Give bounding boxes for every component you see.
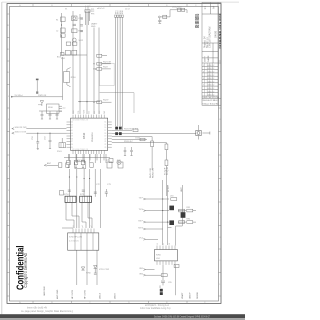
svg-text:6: 6 — [8, 166, 9, 168]
svg-text:4460 62: 4460 62 — [208, 68, 215, 70]
svg-text:VAPC: VAPC — [180, 187, 183, 192]
svg-text:ANT GND: ANT GND — [56, 289, 59, 299]
svg-text:L801 R802: L801 R802 — [172, 7, 183, 9]
svg-text:F501: F501 — [61, 58, 65, 60]
svg-text:A4: A4 — [212, 5, 216, 9]
svg-text:3: 3 — [219, 237, 220, 239]
svg-text:R1: R1 — [56, 20, 58, 22]
svg-text:8: 8 — [219, 119, 220, 121]
svg-text:15: 15 — [105, 124, 107, 126]
svg-text:18: 18 — [105, 133, 107, 135]
svg-text:RX P: RX P — [138, 220, 143, 222]
svg-text:39: 39 — [71, 136, 73, 138]
svg-text:R523 ›: R523 › — [103, 100, 109, 102]
svg-text:COL: COL — [78, 110, 80, 113]
svg-text:DZKBAUER 102 E 6001: DZKBAUER 102 E 6001 — [218, 13, 222, 48]
svg-text:DEPT: DEPT — [204, 55, 206, 61]
svg-text:42: 42 — [71, 127, 73, 129]
svg-text:HF OUT1: HF OUT1 — [72, 289, 74, 299]
svg-text:p4: p4 — [82, 226, 84, 228]
svg-text:HF OUT2: HF OUT2 — [85, 289, 87, 299]
svg-text:i3: i3 — [169, 243, 171, 244]
svg-text:12: 12 — [7, 25, 9, 27]
svg-text:NAME: NAME — [207, 55, 210, 62]
svg-text:9: 9 — [8, 96, 9, 98]
svg-text:n1 n2: n1 n2 — [125, 9, 130, 11]
svg-text:R521 0R: R521 0R — [103, 62, 111, 64]
svg-text:6: 6 — [219, 166, 220, 168]
svg-text:1 2 3 4 5 6 7 8 9 0 1 2 3: 1 2 3 4 5 6 7 8 9 0 1 2 3 — [72, 149, 88, 151]
svg-text:V1: V1 — [65, 9, 67, 11]
svg-text:4460 62: 4460 62 — [208, 85, 215, 87]
svg-text:20: 20 — [105, 138, 107, 140]
svg-text:LED K: LED K — [115, 292, 117, 299]
svg-text:p1: p1 — [73, 226, 75, 228]
svg-text:at DKpk24 - ICLmg A-A: at DKpk24 - ICLmg A-A — [145, 304, 169, 307]
svg-text:22: 22 — [105, 144, 107, 146]
svg-text:LED A: LED A — [99, 292, 102, 299]
svg-text:1: 1 — [219, 284, 220, 286]
svg-text:4460 62: 4460 62 — [208, 91, 215, 93]
svg-text:GND P: GND P — [189, 292, 191, 299]
svg-text:DRW CHK STD NB: DRW CHK STD NB — [203, 97, 220, 99]
svg-text:VDD RF 2V8: VDD RF 2V8 — [15, 127, 27, 129]
svg-text:40: 40 — [71, 133, 73, 135]
svg-text:38: 38 — [71, 138, 73, 140]
svg-text:36: 36 — [71, 144, 73, 146]
svg-text:3: 3 — [8, 237, 9, 239]
svg-text:PWR ON: PWR ON — [38, 95, 47, 97]
svg-text:Sat base. S4/S6 (S/W) 16/1 B6: Sat base. S4/S6 (S/W) 16/1 B6 Created De… — [154, 314, 210, 318]
svg-text:2: 2 — [8, 260, 9, 262]
svg-text:VBATT: VBATT — [181, 292, 184, 299]
svg-text:PMB6850: PMB6850 — [92, 132, 94, 142]
svg-text:11: 11 — [7, 49, 9, 51]
svg-text:TX N: TX N — [138, 209, 143, 211]
svg-text:bmw m3lz (null) r4k: bmw m3lz (null) r4k — [27, 307, 48, 310]
svg-text:17: 17 — [105, 130, 107, 132]
svg-text:7: 7 — [8, 143, 9, 145]
svg-text:2004-06-12 NBG K: 2004-06-12 NBG K — [203, 100, 220, 102]
svg-text:RF OUT: RF OUT — [168, 184, 170, 192]
svg-text:VDD IO 1V8: VDD IO 1V8 — [15, 132, 27, 134]
svg-text:S4/S6: S4/S6 — [213, 30, 217, 38]
svg-text:2: 2 — [219, 260, 220, 262]
svg-text:7: 7 — [203, 85, 204, 87]
svg-text:5: 5 — [8, 190, 9, 192]
svg-text:19: 19 — [105, 136, 107, 138]
svg-text:CIRCUIT DIAGRAM: CIRCUIT DIAGRAM — [208, 27, 211, 48]
svg-text:4460 62: 4460 62 — [208, 78, 215, 80]
svg-text:John Cow tradMade Long X-p: John Cow tradMade Long X-p — [140, 307, 171, 310]
svg-text:5V SW d: 5V SW d — [15, 95, 23, 97]
svg-text:10: 10 — [7, 72, 9, 74]
svg-text:37: 37 — [71, 141, 73, 143]
svg-text:1: 1 — [8, 284, 9, 286]
svg-text:5: 5 — [203, 78, 204, 80]
svg-text:4460 62: 4460 62 — [208, 88, 215, 90]
svg-text:4460 62: 4460 62 — [208, 65, 215, 67]
svg-text:1:1: 1:1 — [203, 5, 207, 9]
svg-text:ROW: ROW — [83, 109, 85, 113]
svg-text:1 2 3 4 5 6: 1 2 3 4 5 6 — [69, 241, 79, 243]
svg-text:RX N: RX N — [138, 227, 143, 229]
svg-text:8: 8 — [8, 119, 9, 121]
svg-text:Copyright © Siemens AG: Copyright © Siemens AG — [23, 253, 28, 288]
svg-text:C2: C2 — [56, 31, 58, 33]
svg-text:i1: i1 — [157, 243, 159, 244]
svg-text:1 2 3 4 5 6 7 8 9 0 1 2 3: 1 2 3 4 5 6 7 8 9 0 1 2 3 — [72, 120, 88, 122]
svg-text:GND SUB: GND SUB — [44, 286, 46, 296]
svg-text:i2: i2 — [163, 243, 165, 244]
svg-text:GND: GND — [91, 26, 96, 28]
svg-text:4460 62: 4460 62 — [208, 81, 215, 83]
svg-text:V761 C762: V761 C762 — [99, 269, 110, 271]
svg-text:35: 35 — [71, 147, 73, 149]
svg-text:K.Bauer S.Graf W: K.Bauer S.Graf W — [203, 102, 218, 105]
svg-text:F: F — [204, 302, 205, 304]
svg-text:p7: p7 — [91, 226, 93, 228]
svg-text:3: 3 — [203, 72, 204, 74]
svg-text:5: 5 — [219, 190, 220, 192]
svg-text:23: 23 — [105, 147, 107, 149]
svg-text:PA RX ON: PA RX ON — [152, 168, 155, 178]
svg-text:MS: 4460 6290 02: MS: 4460 6290 02 — [197, 13, 200, 28]
svg-text:21: 21 — [105, 141, 107, 143]
svg-text:SENSE: SENSE — [197, 291, 199, 299]
svg-text:7: 7 — [219, 143, 220, 145]
svg-text:TX IQ N: TX IQ N — [167, 167, 169, 175]
svg-text:LDO: LDO — [156, 258, 161, 260]
svg-text:4460 62: 4460 62 — [208, 75, 215, 77]
svg-text:14: 14 — [105, 122, 107, 124]
svg-text:D510: D510 — [82, 132, 86, 139]
svg-text:43: 43 — [71, 124, 73, 126]
svg-text:4: 4 — [219, 213, 220, 215]
svg-text:4460 62: 4460 62 — [208, 72, 215, 74]
svg-text:4: 4 — [8, 213, 9, 215]
svg-text:44: 44 — [71, 122, 73, 124]
svg-text:F: F — [195, 5, 196, 7]
svg-text:TX P: TX P — [139, 197, 144, 199]
svg-text:IO2: IO2 — [89, 111, 91, 114]
svg-text:a4 b2 c3: a4 b2 c3 — [97, 8, 104, 10]
svg-text:R533 4k7: R533 4k7 — [124, 141, 133, 143]
svg-text:X750 HF-CON: X750 HF-CON — [69, 237, 83, 239]
svg-text:16: 16 — [105, 127, 107, 129]
svg-text:1: 1 — [203, 65, 204, 67]
svg-text:out: out — [63, 107, 66, 110]
svg-text:41: 41 — [71, 130, 73, 132]
svg-text:ca. page panel Design_Graphic: ca. page panel Design_Graphic Datei Elec… — [21, 310, 74, 313]
svg-text:Z710 SAW: Z710 SAW — [76, 159, 86, 162]
svg-text:EN2: EN2 — [122, 10, 124, 14]
svg-text:PP3: PP3 — [91, 14, 94, 16]
svg-text:IO3: IO3 — [94, 111, 96, 114]
